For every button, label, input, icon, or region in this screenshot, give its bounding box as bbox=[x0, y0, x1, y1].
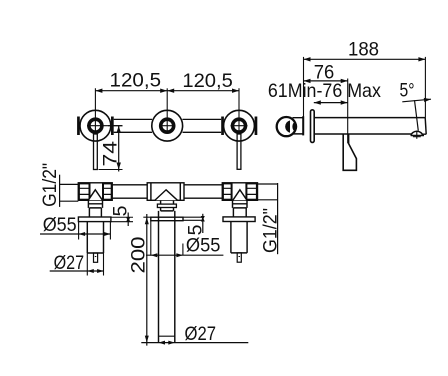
handle half-disc inside ring bbox=[285, 120, 290, 132]
dimension O55 centre: extension lines bbox=[151, 221, 183, 256]
left tee hex nut right bbox=[103, 183, 112, 199]
aerator centre mark vertical bbox=[416, 131, 418, 139]
right G1/2 sleeve edge + label extension bbox=[277, 183, 279, 254]
svg-text:5: 5 bbox=[110, 205, 132, 216]
dimension 5 left: line + arrows bbox=[127, 213, 129, 227]
dimension 5 left: extension lines bbox=[111, 217, 133, 221]
svg-text:G1/2": G1/2" bbox=[259, 208, 281, 253]
dimension 200: line bbox=[146, 214, 148, 346]
svg-text:Ø27: Ø27 bbox=[185, 323, 217, 345]
right crosshair bbox=[231, 125, 248, 127]
left crosshair bbox=[87, 125, 123, 127]
centre crosshair bbox=[162, 125, 174, 127]
centre inner ring bbox=[161, 119, 174, 132]
right tee hex nut right bbox=[246, 183, 257, 199]
right tee body bbox=[222, 183, 257, 201]
fixing bracket below spout bbox=[343, 134, 356, 170]
left threaded rod bbox=[94, 253, 98, 262]
dimension 74 extension ticks bbox=[99, 126, 123, 170]
left valve inner ring bbox=[89, 119, 102, 132]
left tee hex nut left bbox=[79, 183, 90, 199]
right G1/2 sleeve bbox=[258, 184, 278, 200]
dimension 188 line bbox=[304, 58, 426, 60]
right threaded rod bbox=[237, 253, 241, 262]
pipe centre-right bbox=[184, 185, 222, 198]
left tee cone bbox=[88, 190, 102, 201]
dimension 61Min-76Max line bbox=[314, 102, 348, 104]
svg-text:120,5: 120,5 bbox=[110, 70, 162, 92]
svg-text:Ø27: Ø27 bbox=[54, 252, 85, 274]
svg-text:200: 200 bbox=[127, 236, 149, 273]
centre spout neck bbox=[161, 200, 174, 204]
dimension 76 line bbox=[304, 80, 348, 82]
centre neck 2 bbox=[161, 208, 174, 211]
right valve inner ring bbox=[233, 119, 246, 132]
aerator base line bbox=[411, 135, 424, 137]
extension line right valve bbox=[238, 88, 240, 132]
dimension 74 line bbox=[118, 126, 120, 172]
centre tee cap left bbox=[150, 183, 152, 201]
left valve tube bbox=[87, 222, 103, 254]
centre spout rosette circle bbox=[152, 110, 183, 141]
mounting plate left of left circle bbox=[77, 117, 80, 136]
centre escutcheon flange bbox=[151, 217, 183, 221]
right valve tube bbox=[231, 222, 247, 253]
right tee hex nut left bbox=[223, 183, 232, 199]
right escutcheon flange bbox=[223, 217, 255, 222]
right handle lever bbox=[237, 134, 241, 169]
svg-text:74: 74 bbox=[99, 141, 121, 167]
centre tube end ring line bbox=[159, 335, 175, 337]
dimension 5 centre: line + arrows bbox=[202, 214, 204, 233]
mounting plate right of right circle bbox=[255, 117, 258, 136]
centre supply tube bbox=[159, 211, 175, 343]
inlet cylinder end cap bbox=[302, 116, 304, 135]
spout end face bbox=[425, 118, 426, 135]
dimension 120,5 line bbox=[95, 90, 239, 92]
wall escutcheon flange bbox=[311, 110, 315, 143]
left valve rosette circle bbox=[80, 110, 111, 141]
centre collar bbox=[157, 204, 176, 207]
extension line at spout tip bbox=[424, 57, 426, 118]
svg-text:5°: 5° bbox=[400, 80, 415, 102]
right tee cone bbox=[233, 190, 247, 201]
dimension 200: top tick bbox=[143, 216, 151, 218]
svg-text:Ø55: Ø55 bbox=[186, 234, 221, 256]
left tee body bbox=[78, 183, 112, 201]
dimension O27 left: line bbox=[50, 270, 104, 272]
inlet cylinder bbox=[293, 118, 303, 134]
spout tube bottom line bbox=[314, 133, 426, 135]
svg-text:120,5: 120,5 bbox=[182, 70, 233, 92]
5 degree slanted line bbox=[415, 100, 419, 131]
spout tube top line bbox=[314, 117, 425, 119]
dimension O55 centre: line bbox=[146, 254, 223, 256]
mounting plate right of left circle bbox=[111, 117, 114, 136]
aerator dome bbox=[411, 131, 423, 135]
svg-text:Ø55: Ø55 bbox=[43, 214, 77, 236]
mounting plate left of right circle bbox=[221, 117, 224, 136]
pipe left-centre bbox=[112, 185, 147, 198]
dimension 74 arrows bbox=[117, 126, 121, 170]
inlet ring (handle end view) bbox=[277, 117, 296, 136]
aerator centre mark horizontal bbox=[413, 136, 421, 138]
centre tee cone bbox=[155, 190, 178, 201]
svg-text:188: 188 bbox=[348, 39, 379, 61]
dimension O27 centre baseline bbox=[141, 342, 248, 344]
extension line 76 right bbox=[347, 79, 349, 144]
extension line at wall flange bbox=[303, 57, 305, 134]
dimension O55 left: line bbox=[40, 233, 110, 235]
connecting bar centre-right bbox=[183, 119, 222, 132]
dimension 5 centre: extension lines bbox=[183, 217, 204, 220]
dimension arrows 120,5 bbox=[95, 89, 239, 93]
extension line centre spout bbox=[166, 88, 168, 131]
extension line left valve bbox=[94, 88, 96, 132]
handle hub sliver bbox=[292, 122, 297, 131]
svg-text:G1/2": G1/2" bbox=[39, 163, 61, 207]
left valve neck bbox=[88, 200, 102, 217]
right valve neck bbox=[233, 200, 248, 217]
left escutcheon flange bbox=[78, 217, 111, 222]
left tube extension lines bbox=[87, 253, 103, 276]
dimension O55 left: extension lines bbox=[79, 222, 111, 240]
svg-text:61Min-76 Max: 61Min-76 Max bbox=[268, 80, 381, 102]
left G1/2 sleeve bbox=[60, 184, 79, 201]
connecting bar left-centre bbox=[114, 119, 152, 132]
left G1/2 sleeve edge bbox=[59, 175, 61, 207]
left handle lever bbox=[94, 134, 98, 170]
centre tee body bbox=[147, 183, 184, 201]
5 degree leader line bbox=[402, 99, 431, 102]
right valve rosette circle bbox=[224, 110, 255, 141]
centre tee cap right bbox=[179, 183, 181, 201]
